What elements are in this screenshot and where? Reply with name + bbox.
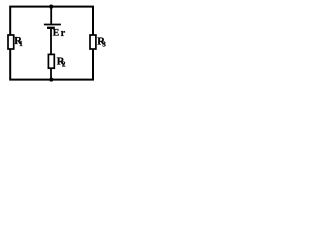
svg-text:1: 1 [19, 41, 23, 48]
svg-text:3: 3 [102, 42, 106, 49]
svg-text:2: 2 [62, 62, 66, 69]
svg-text:r: r [61, 28, 66, 39]
svg-text:E: E [53, 28, 60, 39]
